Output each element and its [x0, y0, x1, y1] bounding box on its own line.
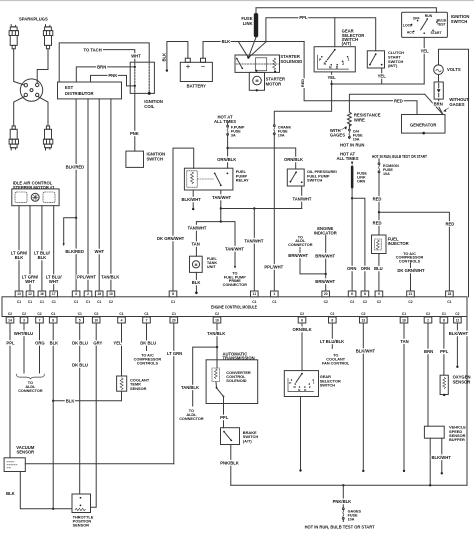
svg-text:3: 3: [75, 292, 77, 296]
svg-text:8: 8: [52, 318, 54, 322]
svg-text:16: 16: [40, 292, 44, 296]
label FUEL PUMP RELAY: [236, 169, 249, 182]
svg-text:LINK: LINK: [243, 21, 253, 26]
svg-text:20: 20: [324, 292, 328, 296]
svg-text:UNIT: UNIT: [207, 265, 217, 269]
wire A: EST to coil secondary: [59, 43, 149, 82]
svg-text:CONNECTOR: CONNECTOR: [288, 243, 313, 247]
without gages pointer arrow: [444, 108, 448, 111]
svg-text:C2: C2: [37, 312, 41, 316]
spark plug 4: [43, 126, 52, 150]
svg-text:DK BLU: DK BLU: [140, 340, 156, 345]
svg-text:BLK/WHT: BLK/WHT: [356, 349, 376, 354]
wire coolant sensor ground to BLK bus: [121, 391, 123, 401]
throttle position sensor box: [72, 494, 91, 513]
svg-text:SWITCH: SWITCH: [451, 19, 468, 24]
ECM bottom pin boxes: [6, 317, 14, 323]
wire LT GRN ECM pin 20: [173, 323, 175, 464]
svg-text:RUN: RUN: [425, 14, 433, 18]
wire BLK/WHT speed buffer ground: [441, 438, 443, 472]
starter motor: [249, 72, 264, 90]
svg-text:RELAY: RELAY: [236, 178, 249, 183]
wire BLK battery ground: [167, 42, 188, 70]
wire plug4 to distributor: [38, 97, 48, 126]
svg-text:DK GRN/WHT: DK GRN/WHT: [397, 268, 425, 273]
svg-text:BRN/WHT: BRN/WHT: [288, 253, 308, 258]
label C/H FUSE 10A: [353, 129, 363, 141]
label CRANK FUSE 10A: [278, 126, 292, 138]
wire BLK sensor ground bus: [53, 400, 121, 402]
svg-text:SPARKPLUGS: SPARKPLUGS: [19, 16, 48, 21]
svg-text:HOT IN RUN, BULB TEST OR START: HOT IN RUN, BULB TEST OR START: [372, 154, 427, 159]
svg-text:TAN/WHT: TAN/WHT: [212, 195, 231, 200]
svg-text:4: 4: [121, 318, 123, 322]
wire TAN/WHT bus: [221, 208, 302, 210]
svg-text:INJECTOR: INJECTOR: [388, 241, 409, 246]
wire TAN/WHT to ECM pin 11: [253, 209, 255, 292]
svg-text:C2: C2: [109, 300, 113, 304]
wire ORN/BLK ECM pin 6 to gear selector: [301, 323, 303, 371]
wire BLK ECM pin 8 to throttle sensor: [52, 323, 54, 509]
svg-text:C2: C2: [300, 312, 304, 316]
svg-text:WIRE: WIRE: [354, 117, 365, 122]
wire PNK/BLK brake switch to bus: [230, 445, 232, 486]
svg-text:C2: C2: [408, 300, 412, 304]
svg-text:START: START: [430, 31, 442, 35]
wire TAN/BLK EST to ECM pin 10: [110, 99, 112, 291]
svg-text:BLK/WHT: BLK/WHT: [449, 331, 469, 336]
svg-text:12: 12: [456, 318, 460, 322]
wire DK GRN/WHT relay coil to ECM pin 8: [173, 148, 194, 291]
svg-text:C2: C2: [22, 312, 26, 316]
label CLUTCH START SWITCH (M/T): [388, 50, 404, 68]
wire BRN: EST to coil: [76, 67, 135, 82]
svg-text:SENSOR: SENSOR: [73, 523, 90, 528]
oxygen sensor box: [440, 375, 448, 394]
gear selector switch (lower) box: [284, 371, 318, 397]
svg-text:BLK/RED: BLK/RED: [65, 249, 84, 254]
svg-text:C1: C1: [51, 312, 55, 316]
svg-text:C1: C1: [172, 312, 176, 316]
wire PPL/WHT crank fuse to ECM pin 1: [273, 135, 275, 291]
wire TAN/BLK ECM pin 16 to transmission: [216, 323, 218, 368]
distributor towers: [24, 84, 27, 87]
svg-text:BLU: BLU: [374, 266, 383, 271]
labels ignition switch positions: [403, 14, 447, 35]
wire YEL gear selector down: [274, 72, 331, 125]
resistance wire element: [348, 112, 352, 126]
label CONVERTER CONTROL SOLENOID: [226, 370, 251, 383]
svg-text:DK GRN/WHT: DK GRN/WHT: [157, 236, 185, 241]
svg-text:ORN: ORN: [347, 266, 356, 271]
svg-text:C2: C2: [94, 312, 98, 316]
svg-text:WHT: WHT: [131, 53, 141, 58]
svg-text:C2: C2: [215, 312, 219, 316]
gages fuse: [342, 508, 344, 510]
ECM/IGN fuse: [378, 159, 380, 163]
labels P R N D 2 1 upper gear selector: [319, 57, 349, 69]
gauge fuse box (without gages): [438, 75, 440, 83]
wire BLK/RED EST to ECM pin 3: [75, 99, 77, 291]
label COOLANT TEMP SENSOR: [130, 378, 150, 391]
svg-text:C1: C1: [442, 312, 446, 316]
wire RED branch to ECM pin 18: [379, 212, 449, 291]
svg-text:MOTOR: MOTOR: [266, 82, 282, 87]
coolant temp sensor box: [117, 376, 127, 391]
ignition switch box: [402, 12, 448, 37]
automatic transmission box: [206, 360, 258, 404]
svg-text:21: 21: [409, 292, 413, 296]
svg-text:ORN: ORN: [361, 266, 370, 271]
svg-text:5: 5: [79, 318, 81, 322]
wire top feed to ignition switch: [256, 8, 436, 13]
label TO COOLANT FAN CONTROL: [322, 354, 350, 366]
svg-text:1: 1: [348, 57, 350, 61]
svg-text:ORN: ORN: [357, 180, 366, 184]
coil terminal dots: [134, 66, 136, 68]
svg-text:C2: C2: [324, 300, 328, 304]
svg-text:TEST: TEST: [437, 22, 447, 26]
svg-text:C1: C1: [74, 300, 78, 304]
svg-text:C2: C2: [455, 312, 459, 316]
label F.PUMP FUSE 3A: [231, 126, 245, 138]
distributor cap circle: [20, 79, 42, 101]
label OIL PRESSURE/FUEL PUMP SWITCH: [307, 169, 338, 182]
svg-text:C2: C2: [363, 300, 367, 304]
svg-text:10A: 10A: [353, 137, 360, 141]
svg-text:RED: RED: [394, 99, 403, 104]
svg-text:WHT: WHT: [49, 279, 59, 284]
svg-text:BRN/WHT: BRN/WHT: [315, 279, 335, 284]
svg-text:BRN/WHT: BRN/WHT: [315, 253, 335, 258]
ignition coil U-coil box: [130, 62, 154, 93]
wire LT BLU/BLK IAC to ECM pin 16: [41, 206, 43, 291]
wire LT GRN/WHT IAC to ECM pin 12: [29, 206, 31, 291]
svg-text:C2: C2: [350, 300, 354, 304]
wire PPL drop to gear selector: [334, 18, 336, 47]
wire YEL clutch to bus: [381, 68, 383, 84]
label FUSE LINK ORN: [357, 172, 367, 184]
with gages pointer arrow: [342, 127, 346, 130]
wire ORG to ALDL: [39, 323, 41, 373]
wire YEL bus: [332, 83, 425, 85]
svg-text:BUFFER: BUFFER: [449, 437, 465, 442]
svg-text:C1: C1: [86, 300, 90, 304]
wire BRN/WHT engine indicator to ECM pin 20: [325, 235, 327, 291]
svg-text:BLK: BLK: [38, 255, 47, 260]
svg-text:8: 8: [331, 318, 333, 322]
svg-text:C1: C1: [171, 300, 175, 304]
svg-text:ORN/BLK: ORN/BLK: [284, 157, 303, 162]
svg-text:2: 2: [427, 318, 429, 322]
wire ORN fuse link down to ECM: [351, 189, 353, 292]
svg-text:CONNECTOR: CONNECTOR: [179, 417, 204, 421]
svg-text:BRN: BRN: [434, 101, 443, 106]
svg-text:COIL: COIL: [144, 104, 154, 109]
svg-text:LT BLU/BLK: LT BLU/BLK: [320, 339, 344, 344]
wire LT GRN vacuum sensor line: [25, 463, 174, 465]
svg-text:TAN/BLK: TAN/BLK: [181, 385, 199, 390]
svg-text:C1: C1: [252, 300, 256, 304]
svg-text:YEL: YEL: [378, 74, 387, 79]
svg-text:ORG: ORG: [35, 340, 45, 345]
svg-text:10A: 10A: [383, 172, 390, 176]
svg-text:DISTRIBUTOR: DISTRIBUTOR: [65, 91, 94, 96]
svg-text:3: 3: [23, 318, 25, 322]
svg-text:ACC: ACC: [407, 30, 415, 34]
label TO A/C COMPRESSOR CONTROLS: [396, 252, 424, 264]
svg-text:C2: C2: [361, 312, 365, 316]
svg-text:TAN/BLK: TAN/BLK: [101, 275, 119, 280]
wire PPL feed line: [266, 18, 376, 51]
ECM top pin boxes: [15, 291, 23, 297]
idle air control stepper motor box: [12, 189, 59, 206]
svg-text:8: 8: [364, 292, 366, 296]
wire plug2 to distributor: [37, 49, 48, 83]
svg-text:BLK/WHT: BLK/WHT: [432, 455, 452, 460]
wire DK BLU ECM pin 5 to throttle sensor: [79, 323, 81, 494]
svg-text:9: 9: [378, 292, 380, 296]
svg-text:SWITCH: SWITCH: [320, 383, 336, 388]
EST distributor box: [58, 82, 122, 99]
svg-text:EST: EST: [65, 85, 74, 90]
battery: [180, 58, 212, 81]
svg-text:PNK: PNK: [108, 73, 117, 78]
svg-text:11: 11: [253, 292, 257, 296]
svg-text:HOT IN RUN, BULB TEST OR START: HOT IN RUN, BULB TEST OR START: [305, 525, 375, 530]
svg-text:BATTERY: BATTERY: [187, 84, 207, 89]
wire speed buffer to bottom bus: [429, 438, 431, 485]
svg-text:WHT: WHT: [95, 249, 105, 254]
svg-text:3A: 3A: [231, 134, 236, 138]
svg-text:TAN/WHT: TAN/WHT: [225, 247, 244, 252]
wire PNK coil to ignition switch: [134, 93, 136, 151]
svg-text:BLK: BLK: [192, 280, 201, 285]
svg-text:PPL: PPL: [6, 340, 15, 345]
svg-text:BLK: BLK: [15, 255, 24, 260]
svg-text:BLK: BLK: [6, 491, 15, 496]
svg-text:TAN/WHT: TAN/WHT: [244, 239, 263, 244]
svg-text:PPL: PPL: [299, 15, 308, 20]
engine control module box: [2, 297, 467, 317]
wire PNK: EST to coil: [91, 75, 135, 86]
wire BLK/WHT ECM pin 13: [362, 323, 364, 470]
svg-text:C1: C1: [144, 312, 148, 316]
clutch start switch box: [367, 51, 384, 68]
svg-text:C1: C1: [28, 300, 32, 304]
page top scan edge: [0, 0, 474, 2]
svg-text:17: 17: [52, 292, 56, 296]
wire BLK vacuum sensor ground: [20, 472, 53, 509]
gear selector switch (A/T) box: [314, 47, 355, 72]
converter control solenoid: [212, 368, 220, 382]
svg-text:C1: C1: [272, 300, 276, 304]
svg-text:BLK: BLK: [50, 340, 59, 345]
label BRAKE SWITCH (A/T): [243, 430, 259, 443]
svg-text:6: 6: [351, 292, 353, 296]
fuel injector box: [372, 235, 387, 254]
label GEAR SELECTOR SWITCH (lower): [320, 374, 341, 387]
svg-text:(A/T): (A/T): [243, 438, 253, 443]
svg-text:20: 20: [172, 318, 176, 322]
svg-text:16: 16: [215, 318, 219, 322]
svg-text:P: P: [289, 381, 291, 385]
labels P R N D 2 1 lower gear selector: [289, 381, 314, 392]
wire YEL ECM pin 4 to coolant temp sensor: [121, 323, 123, 376]
svg-text:ENGINE CONTROL MODULE: ENGINE CONTROL MODULE: [211, 305, 257, 310]
wire PNK/BLK bottom bus: [231, 484, 467, 486]
svg-text:BLK/RED: BLK/RED: [66, 165, 85, 170]
label THROTTLE POSITION SENSOR: [73, 514, 94, 527]
svg-text:PNK: PNK: [130, 131, 139, 136]
wire plug1 to distributor: [14, 49, 25, 85]
fuel tank unit box: [190, 256, 203, 272]
wire BLK into throttle sensor: [53, 508, 72, 510]
svg-text:PPL: PPL: [440, 349, 449, 354]
wire TAN/BLK ALDL branch: [193, 347, 217, 406]
wire PNK/BLK to gages fuse: [342, 485, 344, 507]
svg-text:18: 18: [97, 292, 101, 296]
svg-text:SWITCH: SWITCH: [307, 178, 323, 183]
label TO ALDL CONNECTOR (trans): [179, 409, 204, 421]
svg-text:TAN: TAN: [191, 242, 199, 247]
fuse link ORN: [351, 162, 353, 165]
svg-text:RED: RED: [373, 221, 382, 226]
spark plug 3: [9, 126, 18, 150]
svg-text:BLK/WHT: BLK/WHT: [182, 197, 202, 202]
ignition switch (coil feed) box: [126, 151, 144, 167]
label TO FUEL PUMP PRIME CONNECTOR: [223, 272, 248, 287]
wire TAN/WHT oil switch to bus: [301, 186, 303, 209]
wire BLK battery positive: [203, 42, 304, 59]
wire DK BLU ECM pin 7 stub: [146, 323, 148, 351]
oil pressure / fuel pump switch box: [287, 169, 304, 186]
svg-text:SENSOR: SENSOR: [130, 386, 147, 391]
svg-text:2: 2: [87, 292, 89, 296]
svg-text:WHT: WHT: [25, 279, 35, 284]
svg-text:7: 7: [146, 318, 148, 322]
wire LT BLU/WHT IAC to ECM pin 17: [53, 206, 55, 291]
svg-text:RED: RED: [373, 196, 382, 201]
svg-text:CONNECTOR: CONNECTOR: [18, 389, 43, 393]
svg-text:PNK/BLK: PNK/BLK: [220, 460, 239, 465]
svg-text:GRY: GRY: [93, 340, 102, 345]
svg-text:10A: 10A: [278, 134, 285, 138]
svg-text:DK BLU: DK BLU: [72, 362, 88, 367]
wire TAN/WHT relay output: [220, 190, 222, 209]
svg-text:6: 6: [301, 318, 303, 322]
svg-text:YEL: YEL: [328, 75, 337, 80]
voltmeter VOLTS: [434, 65, 444, 75]
svg-text:BRN: BRN: [97, 64, 106, 69]
svg-text:BLK: BLK: [66, 398, 75, 403]
svg-text:OFF: OFF: [413, 16, 420, 20]
svg-text:BRN: BRN: [424, 349, 433, 354]
svg-text:13: 13: [361, 318, 365, 322]
vacuum sensor box: [4, 458, 25, 472]
label GAGES FUSE 10A: [348, 510, 362, 522]
fuel pump relay box: [184, 168, 233, 190]
wire TAN ECM pin 16: [403, 323, 405, 470]
svg-text:RED: RED: [300, 79, 305, 87]
C/H fuse: [348, 124, 350, 129]
svg-text:8: 8: [172, 292, 174, 296]
svg-text:HOT IN RUN: HOT IN RUN: [340, 143, 364, 148]
voltmeter loop wire: [439, 49, 469, 297]
svg-text:14: 14: [8, 318, 12, 322]
wire PPL ECM to vacuum sensor: [9, 323, 11, 458]
wire ORN/BLK fuse bus to oil switch: [228, 148, 296, 169]
svg-text:GENERATOR: GENERATOR: [410, 122, 436, 127]
wire BRN ECM pin 2 to speed buffer: [427, 323, 429, 426]
label VEHICLE SPEED SENSOR BUFFER: [449, 425, 466, 443]
wire BLK/WHT relay coil ground: [192, 190, 194, 208]
svg-text:13: 13: [17, 292, 21, 296]
wire GRY ECM pin 10 to throttle sensor: [91, 323, 97, 507]
svg-text:SOLENOID: SOLENOID: [226, 378, 247, 383]
svg-text:10A: 10A: [348, 518, 355, 522]
wire RED fuse to fuel injector: [378, 173, 380, 235]
svg-text:C1: C1: [119, 312, 123, 316]
svg-text:C1: C1: [40, 300, 44, 304]
label TO ALDL CONNECTOR (left): [18, 381, 43, 393]
svg-text:TRANSMISSION: TRANSMISSION: [223, 356, 255, 361]
wire BRN to generator: [438, 99, 440, 101]
wire TAN/WHT to fuel pump prime connector: [221, 222, 235, 267]
svg-text:SWITCH: SWITCH: [147, 156, 164, 161]
svg-text:16: 16: [402, 318, 406, 322]
wire BRN/WHT ALDL branch: [299, 248, 301, 251]
svg-text:M: M: [195, 263, 198, 267]
svg-text:18: 18: [448, 292, 452, 296]
svg-text:ORN/BLK: ORN/BLK: [217, 157, 236, 162]
svg-text:ORN/BLK: ORN/BLK: [293, 327, 312, 332]
svg-text:C1: C1: [330, 312, 334, 316]
starter solenoid box: [235, 55, 280, 72]
vehicle speed sensor buffer box: [424, 426, 444, 438]
svg-text:PPL/WHT: PPL/WHT: [77, 275, 96, 280]
svg-text:10: 10: [94, 318, 98, 322]
svg-text:(M/T): (M/T): [388, 63, 398, 68]
svg-text:LT GRN: LT GRN: [167, 351, 182, 356]
svg-text:SENSOR: SENSOR: [16, 449, 34, 454]
wire LT GRN/BLK IAC to ECM pin 13: [18, 206, 20, 291]
spark plug 2: [43, 25, 52, 49]
svg-text:CONTROLS: CONTROLS: [399, 259, 421, 263]
wire LT BLU/BLK ECM stub to coolant fan control: [331, 323, 333, 348]
svg-text:C2: C2: [377, 300, 381, 304]
wire plug3 to distributor: [14, 97, 25, 126]
svg-text:TAN: TAN: [400, 339, 408, 344]
svg-text:WHT/BLU: WHT/BLU: [14, 331, 33, 336]
svg-text:TAN/WHT: TAN/WHT: [293, 196, 312, 201]
svg-text:BLK: BLK: [162, 53, 167, 62]
svg-text:C2: C2: [8, 312, 12, 316]
svg-text:BLK: BLK: [222, 39, 231, 44]
svg-text:YEL: YEL: [113, 340, 122, 345]
svg-text:PPL: PPL: [220, 415, 229, 420]
svg-text:1: 1: [273, 292, 275, 296]
svg-text:YEL: YEL: [421, 49, 430, 54]
svg-text:SOLENOID: SOLENOID: [280, 59, 302, 64]
wire YEL ignition switch to bus: [423, 37, 425, 84]
wire DK GRN/WHT to A/C compressor controls: [410, 263, 412, 266]
wire WHT/BLU to ALDL: [23, 323, 25, 373]
wire TO TACH to coil top: [104, 50, 135, 63]
wire TAN/WHT to fuel tank unit: [196, 209, 220, 257]
svg-text:ALL TIMES: ALL TIMES: [214, 119, 236, 124]
svg-text:PNK/BLK: PNK/BLK: [333, 499, 352, 504]
